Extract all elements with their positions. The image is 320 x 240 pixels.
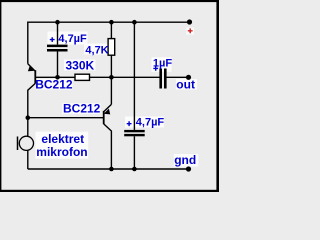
svg-text:BC212: BC212 (35, 78, 73, 92)
svg-text:1µF: 1µF (153, 57, 172, 69)
svg-text:gnd: gnd (174, 153, 196, 167)
svg-text:BC212: BC212 (63, 102, 101, 116)
svg-text:4,7µF: 4,7µF (58, 33, 87, 45)
svg-text:elektret: elektret (41, 132, 84, 146)
svg-text:mikrofon: mikrofon (36, 145, 87, 159)
svg-text:4,7K: 4,7K (85, 44, 108, 56)
svg-text:330K: 330K (66, 58, 95, 72)
svg-text:4,7µF: 4,7µF (136, 117, 165, 129)
svg-text:out: out (176, 78, 195, 92)
